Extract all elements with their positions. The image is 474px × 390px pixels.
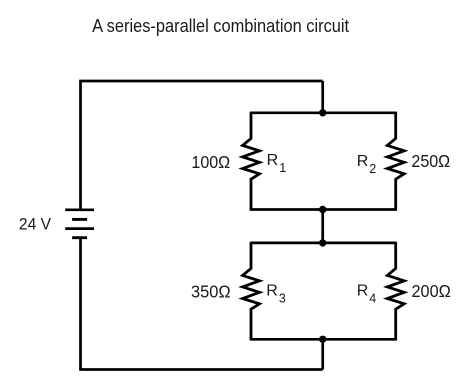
wire: feed to top parallel group: [321, 81, 324, 113]
wire: bottom horizontal: [79, 368, 322, 371]
svg-text:R: R: [267, 152, 279, 169]
svg-text:100Ω: 100Ω: [191, 152, 230, 172]
svg-text:1: 1: [279, 161, 286, 175]
label: 200Ω value of R4: [412, 281, 451, 301]
junction dot: bottom of first parallel pair: [319, 206, 326, 213]
label: R2: [357, 153, 376, 176]
wire: top horizontal: [79, 80, 322, 83]
wire: battery bottom lead: [79, 238, 82, 370]
svg-text:2: 2: [369, 162, 376, 176]
label: 100Ω value of R1: [191, 152, 230, 172]
battery B1 24V: [65, 210, 94, 238]
svg-text:R: R: [357, 283, 369, 300]
resistor R4: [387, 242, 404, 341]
svg-text:200Ω: 200Ω: [412, 281, 451, 301]
wire: drop from bottom junction: [321, 339, 324, 369]
resistor R2: [387, 112, 404, 211]
junction dot: bottom of second parallel pair: [319, 336, 326, 343]
svg-text:A series-parallel combination: A series-parallel combination circuit: [92, 15, 350, 36]
wire: rect2 top edge: [251, 242, 396, 245]
svg-text:350Ω: 350Ω: [191, 281, 231, 301]
label: R3: [266, 283, 286, 306]
resistor R1: [243, 112, 260, 211]
junction dot: top of second parallel pair: [319, 239, 326, 246]
svg-text:24 V: 24 V: [19, 215, 52, 234]
svg-text:4: 4: [369, 292, 376, 306]
svg-text:R: R: [357, 153, 369, 170]
title caption: [92, 15, 350, 36]
junction dot: top of first parallel pair: [319, 109, 326, 116]
label: 350Ω value of R3: [191, 281, 231, 301]
wire: connector between parallel groups: [321, 210, 324, 243]
wire: rect1 top edge: [251, 111, 396, 114]
label: R4: [357, 283, 376, 306]
wire: rect1 bottom edge: [251, 208, 396, 211]
svg-text:250Ω: 250Ω: [411, 151, 450, 171]
label: 250Ω value of R2: [411, 151, 450, 171]
wire: rect2 bottom edge: [251, 338, 396, 341]
svg-text:3: 3: [279, 292, 286, 306]
wire: battery top lead: [79, 81, 82, 210]
label: 24 V: [19, 215, 52, 234]
resistor R3: [243, 242, 260, 341]
label: R1: [267, 152, 287, 175]
svg-text:R: R: [266, 283, 278, 300]
